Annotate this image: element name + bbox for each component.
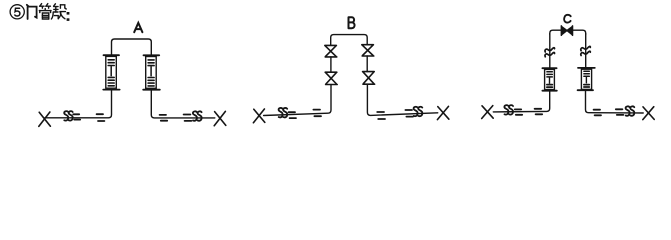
wire: B left riser + horizontal to X (264, 85, 331, 116)
joint SS (A left) (64, 111, 68, 120)
heading char men (door) (27, 5, 37, 19)
joint = #2 (C right) (616, 109, 624, 115)
bellows unit left (A) (103, 55, 119, 89)
heading char guan (pipe) (39, 4, 51, 19)
wire: bridge C left (550, 30, 562, 34)
joint SS (C left) (504, 105, 508, 114)
joint = #2 (B left) (313, 110, 321, 117)
wire: B left pipe between valves (330, 57, 332, 72)
heading char duan (section) (51, 4, 66, 19)
bellows unit right (C) (578, 68, 595, 90)
joint = #2 (A right) (184, 115, 192, 121)
wire: A left riser + horizontal to X (45, 90, 112, 118)
joint = #2 (A left) (97, 114, 105, 121)
wire: bridge A (112, 39, 152, 55)
joint SS (C right) (626, 106, 630, 115)
label C (564, 15, 571, 23)
joint = #1 (A right) (160, 115, 168, 121)
heading circled 5 (10, 5, 24, 19)
end cross X (A left) (39, 112, 51, 126)
joint SS (A right) (193, 111, 197, 120)
valve V5 (C top) (561, 26, 572, 35)
wire: C left riser + horizontal to X (493, 91, 549, 112)
wire: C right riser + horizontal to X (586, 90, 644, 113)
joint SS (B left) (279, 108, 283, 117)
valve V4 (B right) (363, 72, 375, 85)
label B (349, 17, 355, 28)
end cross X (B right) (437, 106, 449, 119)
wire: bridge B (331, 35, 368, 46)
bellows unit right (A) (143, 55, 160, 89)
wire: C left pipe upper (549, 34, 551, 68)
wire: B right pipe between valves (366, 56, 368, 72)
end cross X (A right) (214, 111, 226, 125)
end cross X (C left) (482, 106, 494, 119)
wire: B right riser + horizontal to X (367, 84, 437, 115)
compensator squiggle (C right) (581, 46, 591, 55)
joint = #1 (C right) (594, 110, 601, 116)
joint = #2 (B right) (405, 110, 413, 117)
joint = #1 (B left) (289, 112, 296, 118)
wire: A right riser + horizontal to X (151, 90, 215, 118)
heading colon (67, 12, 70, 21)
joint = #2 (C left) (535, 109, 543, 115)
compensator squiggle (C left) (545, 48, 555, 57)
wire: C right pipe upper (585, 34, 587, 68)
wire: bridge C right (573, 30, 586, 34)
valve V3 (B right) (362, 45, 374, 56)
valve V2 (B left) (325, 72, 337, 84)
joint SS (B right) (414, 107, 418, 116)
end cross X (B left) (253, 109, 264, 123)
joint = #1 (B right) (377, 112, 385, 119)
label A (134, 23, 142, 32)
bellows unit left (C) (542, 68, 556, 91)
valve V1 (B left) (325, 45, 337, 57)
joint = #1 (A left) (73, 114, 80, 119)
joint = #1 (C left) (515, 109, 522, 114)
end cross X (C right) (643, 107, 654, 120)
